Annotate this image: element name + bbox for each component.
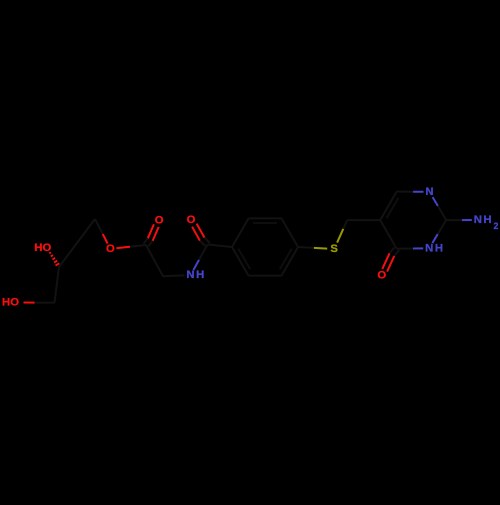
benzene bond C3-C4 [282, 218, 299, 247]
bond C(b)-C(x) [59, 243, 77, 267]
svg-text:O: O [155, 214, 164, 226]
pyrimidine bond C6-N1 [397, 191, 413, 193]
bond C(x)-C(d) [77, 219, 95, 243]
svg-text:O: O [43, 242, 52, 254]
bond ring C4-S [298, 246, 314, 249]
svg-text:H: H [483, 214, 491, 226]
pyrimidine bond N3-C4 [413, 247, 423, 249]
svg-text:H: H [2, 297, 10, 309]
bond C(alpha)-NH [163, 274, 185, 277]
bond C(amide)-ring C1 [208, 245, 233, 248]
pyrimidine bond C2-N3 [438, 220, 447, 234]
svg-text:H: H [196, 269, 204, 281]
pyrimidine bond N1-C2 [433, 197, 438, 206]
svg-text:N: N [186, 269, 194, 281]
svg-text:N: N [425, 186, 433, 198]
svg-text:O: O [10, 297, 19, 309]
bond NH-C(amide) [193, 260, 199, 270]
double bond C4=O [382, 253, 389, 269]
bond CH2-C5(pyrimidine) [347, 219, 380, 221]
bond C(d)-O(ester) [95, 219, 103, 234]
svg-text:H: H [435, 242, 443, 254]
bond O(ester)-C(ester) [116, 247, 130, 249]
svg-text:N: N [474, 214, 482, 226]
pyrimidine bond C5-C6 + inner [380, 192, 397, 221]
benzene bond C2-C3 + inner [249, 217, 282, 219]
double bond C(ester)=O [153, 227, 159, 241]
svg-text:2: 2 [494, 221, 499, 231]
double bond C(amide)=O [197, 224, 205, 238]
bond HO2-CH2(a) [24, 302, 35, 304]
bond C2-NH2 [446, 219, 462, 221]
bond C(a)-C(b) [55, 267, 60, 303]
benzene bond C5-C6 [249, 275, 282, 277]
svg-text:H: H [34, 242, 42, 254]
benzene bond C4-C5 + inner [282, 247, 299, 276]
hashed wedge C(b)-OH1 [49, 252, 51, 253]
benzene bond C1-C2 [232, 218, 249, 247]
svg-text:S: S [330, 243, 338, 255]
benzene bond C6-C1 + inner [232, 247, 249, 276]
svg-text:N: N [425, 242, 433, 254]
svg-text:O: O [377, 270, 386, 282]
bond C(ester)-C(alpha) [146, 245, 163, 276]
pyrimidine bond C4-C5 [380, 220, 397, 249]
svg-text:O: O [106, 243, 115, 255]
bond S-CH2 [337, 229, 343, 243]
svg-text:O: O [187, 214, 196, 226]
